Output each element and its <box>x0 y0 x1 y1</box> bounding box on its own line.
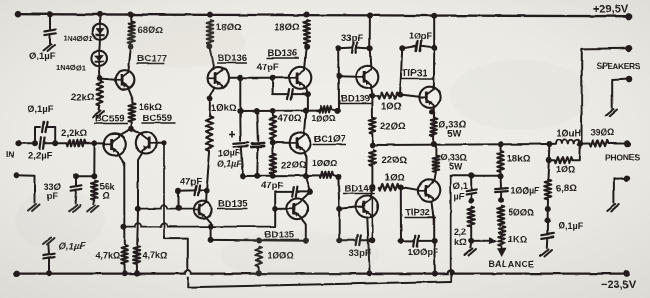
label 0,33 line2 5W <box>448 129 462 139</box>
label 33pF bottom <box>349 248 371 259</box>
label +29,5V <box>593 4 629 16</box>
node rail junction C1 <box>47 11 53 17</box>
wire rail to TIP31 collector <box>433 16 435 48</box>
wire emitter to 10R-1 <box>372 95 378 97</box>
label 16kOhm <box>139 102 163 113</box>
wire BD135-2 collector <box>301 192 310 200</box>
wire BD139 base link <box>339 75 357 78</box>
label 500Ohm <box>509 208 535 218</box>
wire tail to left BC559 emitter <box>120 129 132 136</box>
svg-text:2,2µF: 2,2µF <box>28 151 53 162</box>
node 56k top <box>91 173 97 179</box>
label 330pF line2 <box>47 191 58 201</box>
wire 47pF-0 to collector <box>292 93 308 95</box>
svg-text:1ØΩ: 1ØΩ <box>381 102 402 113</box>
node BD140 base tee <box>336 205 342 211</box>
node NFB 0.1uF tap <box>468 173 474 179</box>
svg-text:1ØpF: 1ØpF <box>409 31 433 41</box>
resistor R14 100R lower <box>320 172 334 178</box>
resistor R7 4.7k <box>134 246 141 265</box>
node speaker terminal bottom <box>626 76 633 83</box>
node output filter left <box>546 141 552 147</box>
wire rail to D1 <box>99 14 101 23</box>
svg-text:5W: 5W <box>448 129 462 139</box>
inductor L1 10uH <box>556 139 580 143</box>
node BD136-1 collector junction <box>237 75 243 81</box>
svg-text:39ØΩ: 39ØΩ <box>591 128 615 138</box>
resistor R6 4.7k <box>121 246 128 265</box>
node rail junction 680R <box>128 12 134 18</box>
resistor R2 680R <box>128 21 135 43</box>
svg-text:1ØØµF: 1ØØµF <box>511 186 541 196</box>
node -23.5V terminal <box>623 270 630 277</box>
node TIP32 rail junction <box>432 271 438 277</box>
node 100pF left <box>398 238 404 244</box>
wire 100pF right lead <box>419 240 435 242</box>
wire speaker return <box>612 79 629 108</box>
wire V2 through H2 to R7 <box>136 212 139 245</box>
label 1N4001 D1 <box>63 34 94 43</box>
node 47pF-0 tap <box>270 75 276 81</box>
svg-text:PHONES: PHONES <box>605 153 640 163</box>
wire BD136 base row <box>240 77 289 79</box>
wire 47pF1 right lead <box>199 189 206 191</box>
node input cap left junction <box>32 140 38 146</box>
svg-text:5W: 5W <box>449 162 463 172</box>
wire bias row horizontal <box>76 175 94 177</box>
wire right base to V3 <box>157 142 164 144</box>
node R14 right junction <box>335 174 341 180</box>
label BD139 <box>340 94 373 105</box>
label 220Ohm #A <box>380 121 406 132</box>
wire C17 lower lead <box>48 259 50 274</box>
label TIP31 <box>401 68 433 79</box>
wire 10R right lead <box>573 146 581 161</box>
node rail junction 180R-1 <box>207 12 213 18</box>
wire BC107 base link <box>273 141 290 144</box>
wire Va to 10uF <box>239 111 241 141</box>
node 47pF1 left <box>176 188 182 194</box>
node rail junction 180R-2 <box>304 12 310 18</box>
resistor R8 180R <box>207 20 214 44</box>
ground input shield <box>28 204 40 211</box>
label 22kOhm <box>71 92 95 103</box>
node H6 left <box>208 237 214 243</box>
resistor R12 470R <box>270 116 277 140</box>
wire 16k to emitter node <box>130 122 133 129</box>
label 180Ohm #2 <box>274 22 300 33</box>
label 10Ohm out <box>556 165 575 175</box>
node 10pF right <box>431 45 437 51</box>
node output left <box>369 142 375 148</box>
svg-text:µF: µF <box>454 192 465 202</box>
transistor Q8 BD135 second <box>287 198 308 219</box>
label 56k line2 <box>103 191 110 201</box>
resistor R4 16k <box>129 103 136 122</box>
svg-text:5ØØΩ: 5ØØΩ <box>509 208 535 218</box>
node base2 junction <box>272 206 278 212</box>
wire 0.1uF nfb bottom lead <box>470 194 472 200</box>
resistor R27 6.8R <box>545 179 552 200</box>
resistor R22 2.2k <box>468 207 475 227</box>
node rail junction TIP col1 <box>367 13 373 19</box>
label 33pF top <box>341 33 363 44</box>
node 680R-BC177 junction <box>128 43 134 49</box>
label 1N4001 D2 <box>56 63 87 72</box>
node zobel dot1 <box>545 206 551 212</box>
label 0,1uF lower <box>59 241 86 252</box>
svg-text:1N4ØØ1: 1N4ØØ1 <box>56 63 87 72</box>
node 47pF2 right <box>307 189 313 195</box>
wire NFB top row <box>451 175 501 177</box>
label TIP32 <box>404 208 436 219</box>
wire C2 to R1 <box>44 142 67 144</box>
wire BD139 emitter down <box>371 87 372 93</box>
wire coil left lead <box>549 143 556 145</box>
node input terminal IN <box>15 140 21 146</box>
wire x310 column <box>306 176 311 192</box>
svg-text:Ø,1µF: Ø,1µF <box>29 51 56 62</box>
wire R6 to rail <box>124 264 126 272</box>
wire BC177 collector to 16k <box>129 89 132 103</box>
resistor R25 10R <box>555 157 573 163</box>
node bottom-left rail terminal <box>14 271 20 277</box>
node 10k top <box>207 96 213 102</box>
wire zobel top <box>547 160 550 179</box>
resistor R23 18k <box>497 151 504 172</box>
label 47pF #1 <box>180 177 202 188</box>
capacitor C10 33pF <box>352 42 357 52</box>
svg-text:Ω: Ω <box>103 191 110 201</box>
wire V3 staircase <box>164 237 188 270</box>
wire bypass loop right leg <box>47 127 55 143</box>
wire rail to 680R <box>130 15 133 22</box>
node loop right junction <box>52 140 58 146</box>
resistor R5 56k <box>91 181 98 201</box>
node rail junction diodes <box>97 11 103 17</box>
capacitor C1 0.1uF <box>44 30 55 35</box>
wire C17 upper lead <box>47 245 50 255</box>
node +29.5V terminal <box>626 13 633 20</box>
wire input to C2 <box>19 142 37 144</box>
wire BC107 emitter down <box>304 153 307 175</box>
node 47pF1 right collector <box>204 188 210 194</box>
label 100Ohm upper <box>311 113 336 123</box>
wire to BD136-1 emitter <box>209 46 214 68</box>
label 10pF <box>409 31 433 41</box>
label 10Ohm #1 <box>381 102 402 113</box>
wire -23.5V bottom supply rail <box>17 270 627 274</box>
node BD140 rail junction <box>367 270 373 276</box>
wire tail to right BC559 emitter <box>131 129 141 135</box>
ground below C1 <box>44 44 56 51</box>
label BD140 <box>343 184 376 195</box>
transistor Q11 BD140 <box>356 196 378 218</box>
label -23,5V <box>601 279 637 291</box>
label PHONES <box>605 153 640 163</box>
wire BD135-1 collector up <box>205 191 207 202</box>
wire 33pF2 right riser <box>371 197 373 240</box>
label 0,33-2 line2 <box>449 162 463 172</box>
node BD139 base tee <box>336 73 342 79</box>
label BD135 first <box>217 199 248 210</box>
wire +29.5V top supply rail <box>18 14 629 16</box>
node H4 Vc <box>270 173 276 179</box>
node TIP31 emitter junction <box>429 109 435 115</box>
transistor Q6 BC107 <box>290 132 311 153</box>
node phones terminal bottom <box>624 175 630 181</box>
node H4 BC107 emitter <box>303 173 309 179</box>
wire feedback bottom run <box>188 282 451 288</box>
node H2 left junction <box>120 224 126 230</box>
ground below 22k <box>93 111 105 118</box>
svg-text:22ØΩ: 22ØΩ <box>380 121 406 132</box>
svg-text:Ø,1µF: Ø,1µF <box>558 221 584 231</box>
svg-text:+29,5V: +29,5V <box>593 4 629 16</box>
node 180R2 bottom <box>304 44 310 50</box>
node emitter-H2 join <box>208 223 214 229</box>
node speaker terminal top <box>625 45 632 52</box>
label 47pF #2 <box>261 181 283 192</box>
node top-left rail terminal <box>15 11 22 18</box>
resistor R10 180R <box>303 20 310 44</box>
ground above C17 <box>43 238 55 245</box>
capacitor C2 2.2uF <box>39 138 44 149</box>
label BC559 right <box>142 113 176 124</box>
svg-text:SPEAKERS: SPEAKERS <box>597 61 641 71</box>
resistor R18 220R <box>369 117 376 134</box>
wire wiper ground lead <box>470 241 473 248</box>
wire 100uF bottom lead <box>500 192 502 199</box>
svg-text:1ØkΩ: 1ØkΩ <box>211 103 237 114</box>
wire output row <box>372 144 549 145</box>
node output junction 18k <box>498 141 504 147</box>
resistor R13 220R <box>270 154 277 175</box>
svg-text:47pF: 47pF <box>257 62 279 73</box>
label 100Ohm <box>268 251 294 261</box>
svg-text:IN: IN <box>6 149 15 159</box>
label 100Ohm lower <box>312 158 337 168</box>
label 2,2k line2 <box>455 237 467 247</box>
svg-text:Ø,1µF: Ø,1µF <box>217 159 242 169</box>
node 33pF right junction <box>367 45 373 51</box>
svg-text:1ØµF: 1ØµF <box>218 148 241 158</box>
svg-text:1ØØpF: 1ØØpF <box>408 247 439 257</box>
node H3 Vb <box>254 108 260 114</box>
node 10R row left <box>546 157 552 163</box>
wire TIP31 emitter lead <box>432 108 434 119</box>
wire L to 390R <box>580 143 589 145</box>
node TIP31 base corner <box>397 92 403 98</box>
node R11 right junction <box>335 108 341 114</box>
label BD136 first <box>217 53 248 64</box>
wire R11 to BD139 base node <box>332 109 338 111</box>
node 180R1 bottom <box>206 43 212 49</box>
resistor R19 220R <box>369 150 376 166</box>
svg-text:22ØΩ: 22ØΩ <box>281 160 307 171</box>
wire BD139 base column <box>338 48 340 111</box>
node BD136-2 collector join <box>305 91 311 97</box>
label 0,1uF small <box>217 159 242 169</box>
transistor Q10 TIP31 <box>419 87 440 108</box>
transistor Q3 BC559 right <box>135 132 156 153</box>
node H6 right <box>303 238 309 244</box>
transistor Q5 BD136 second <box>289 67 311 89</box>
label BC559 left <box>94 114 128 125</box>
wire 10pF left lead <box>402 46 416 48</box>
resistor R11 100R upper <box>319 106 332 112</box>
label 10uF <box>218 148 241 158</box>
label 2,2k line1 <box>454 227 467 237</box>
wire 2.2k to wiper node <box>470 227 472 240</box>
wire zobel bottom lead <box>546 238 549 248</box>
transistor Q12 TIP32 <box>418 179 440 201</box>
wire TIP32 base lead <box>401 187 418 190</box>
svg-text:1ØΩ: 1ØΩ <box>385 173 406 184</box>
wire 330pF top lead <box>75 176 77 185</box>
node 100R top junction <box>256 238 262 244</box>
wire Vb bottom <box>256 147 259 176</box>
diode D2 1N4001 <box>91 51 107 67</box>
svg-text:18ØΩ: 18ØΩ <box>274 22 300 33</box>
wire 33pF2 left lead <box>339 239 355 241</box>
node R7 rail junction <box>134 270 140 276</box>
label 220Ohm bias <box>281 160 307 171</box>
svg-text:1ØuH: 1ØuH <box>557 128 581 138</box>
wire V3 right base feedback drop <box>163 143 165 237</box>
wire 0.33R1 to output <box>433 136 435 144</box>
node 47pF junction on H1 <box>176 205 182 211</box>
wire phones return <box>614 178 627 202</box>
label 1kOhm pot <box>508 235 527 245</box>
wire BD136-1 collector right <box>229 77 240 79</box>
wire BD135-1 emitter down <box>206 218 211 238</box>
node 330pF top <box>73 173 79 179</box>
label 680Ohm <box>138 25 164 36</box>
ground below zobel <box>541 250 553 257</box>
capacitor C3 0.1uF bypass <box>43 122 48 132</box>
svg-text:kΩ: kΩ <box>455 237 467 247</box>
node H1 left junction <box>135 206 141 212</box>
wire TIP32 collector down <box>432 201 434 240</box>
svg-text:1ØØΩ: 1ØØΩ <box>312 158 337 168</box>
svg-text:BALANCE: BALANCE <box>488 259 535 269</box>
node input ground terminal <box>14 172 20 178</box>
node diff pair tail <box>128 126 134 132</box>
pot lower arrow <box>498 246 505 256</box>
wire base2 riser <box>274 192 276 226</box>
svg-text:470Ω: 470Ω <box>278 114 302 125</box>
label 0,1uF bypass <box>27 104 54 115</box>
wire Vc middle <box>272 140 274 154</box>
label 0,33-2 line1 <box>440 153 467 163</box>
wire Vc bottom lead <box>272 174 274 176</box>
wire Vc top lead <box>272 111 274 116</box>
wire 100pF left lead <box>401 240 414 242</box>
wire 10k to 47pF node <box>207 151 210 191</box>
resistor R3 22k <box>97 81 104 106</box>
wire TIP32 base drop <box>400 187 402 240</box>
wire D2 to base node <box>98 66 101 76</box>
node right base corner <box>161 140 166 145</box>
label 330pF line1 <box>44 182 61 192</box>
wire 47pF1 left leg <box>178 191 180 206</box>
wire R7 to rail <box>136 264 138 272</box>
ground below 2.2k <box>465 249 477 256</box>
svg-text:TIP31: TIP31 <box>402 68 428 79</box>
wire BC107 collector up <box>304 111 306 134</box>
wire 100R to rail <box>258 267 260 272</box>
capacitor C12 33pF <box>356 236 361 246</box>
wire 100uF top lead <box>500 176 502 188</box>
capacitor C16 0.1uF zobel <box>541 233 553 239</box>
wire 0.33R2 top <box>435 144 437 156</box>
node 10pF left <box>399 45 405 51</box>
node BD140 emitter node <box>369 184 375 190</box>
node 100pF right <box>431 238 437 244</box>
node nfb mid <box>468 198 474 204</box>
wire BD140 collector down <box>367 218 369 271</box>
label 180Ohm #1 <box>216 22 242 33</box>
wire 47pF1 left lead <box>179 189 195 191</box>
capacitor C15 100uF <box>495 188 508 192</box>
node H4 Va <box>240 173 246 179</box>
svg-text:2,2: 2,2 <box>454 227 467 237</box>
node BC177 base junction <box>97 76 103 82</box>
wire 390R to phones <box>608 143 625 145</box>
node R6 rail junction <box>122 270 128 276</box>
wire BD140 base link <box>339 207 356 209</box>
wire D1 to D2 <box>98 39 101 50</box>
wire to BD136-2 emitter <box>305 47 307 67</box>
wire 10R lead <box>549 159 555 161</box>
capacitor C4 330pF <box>71 185 82 190</box>
wiper arrowhead <box>489 237 498 244</box>
wire H4 bias bottom <box>243 174 320 177</box>
node rail junction TIP31 <box>431 13 437 19</box>
resistor R26 390R <box>590 140 609 146</box>
label 2,2kOhm <box>61 128 87 139</box>
wire R3 to ground <box>98 106 101 110</box>
transistor Q4 BD136 first <box>208 67 229 88</box>
wire C1 bottom lead <box>49 34 51 43</box>
wire filter drop <box>548 144 551 160</box>
resistor R15 100R <box>255 247 262 267</box>
label 56k line1 <box>100 182 116 192</box>
svg-text:4,7kΩ: 4,7kΩ <box>143 251 168 261</box>
wire input ground lead <box>17 175 35 202</box>
label 2,2uF <box>28 151 53 162</box>
svg-text:1KΩ: 1KΩ <box>508 235 527 245</box>
label 0,1uF zobel <box>558 221 584 231</box>
wire Va top <box>239 78 241 111</box>
wire BD139 collector up <box>370 48 371 66</box>
label BD135 second <box>264 230 300 241</box>
svg-text:2,2kΩ: 2,2kΩ <box>61 128 87 139</box>
label 470Ohm <box>278 114 302 125</box>
wire 10pF right lead <box>421 46 434 48</box>
wire C1 top lead <box>49 14 51 29</box>
wire 220A to output node <box>371 134 373 143</box>
label 0,1 nfb line1 <box>453 181 468 191</box>
wire H2 link line <box>123 223 275 227</box>
resistor R20 10R <box>379 184 400 190</box>
wire rail to 33pF node <box>369 16 371 49</box>
wire left collector V1 <box>119 155 125 245</box>
node 33pF left junction <box>336 45 342 51</box>
label 100uF <box>511 186 541 196</box>
capacitor C13 100pF <box>414 236 419 246</box>
